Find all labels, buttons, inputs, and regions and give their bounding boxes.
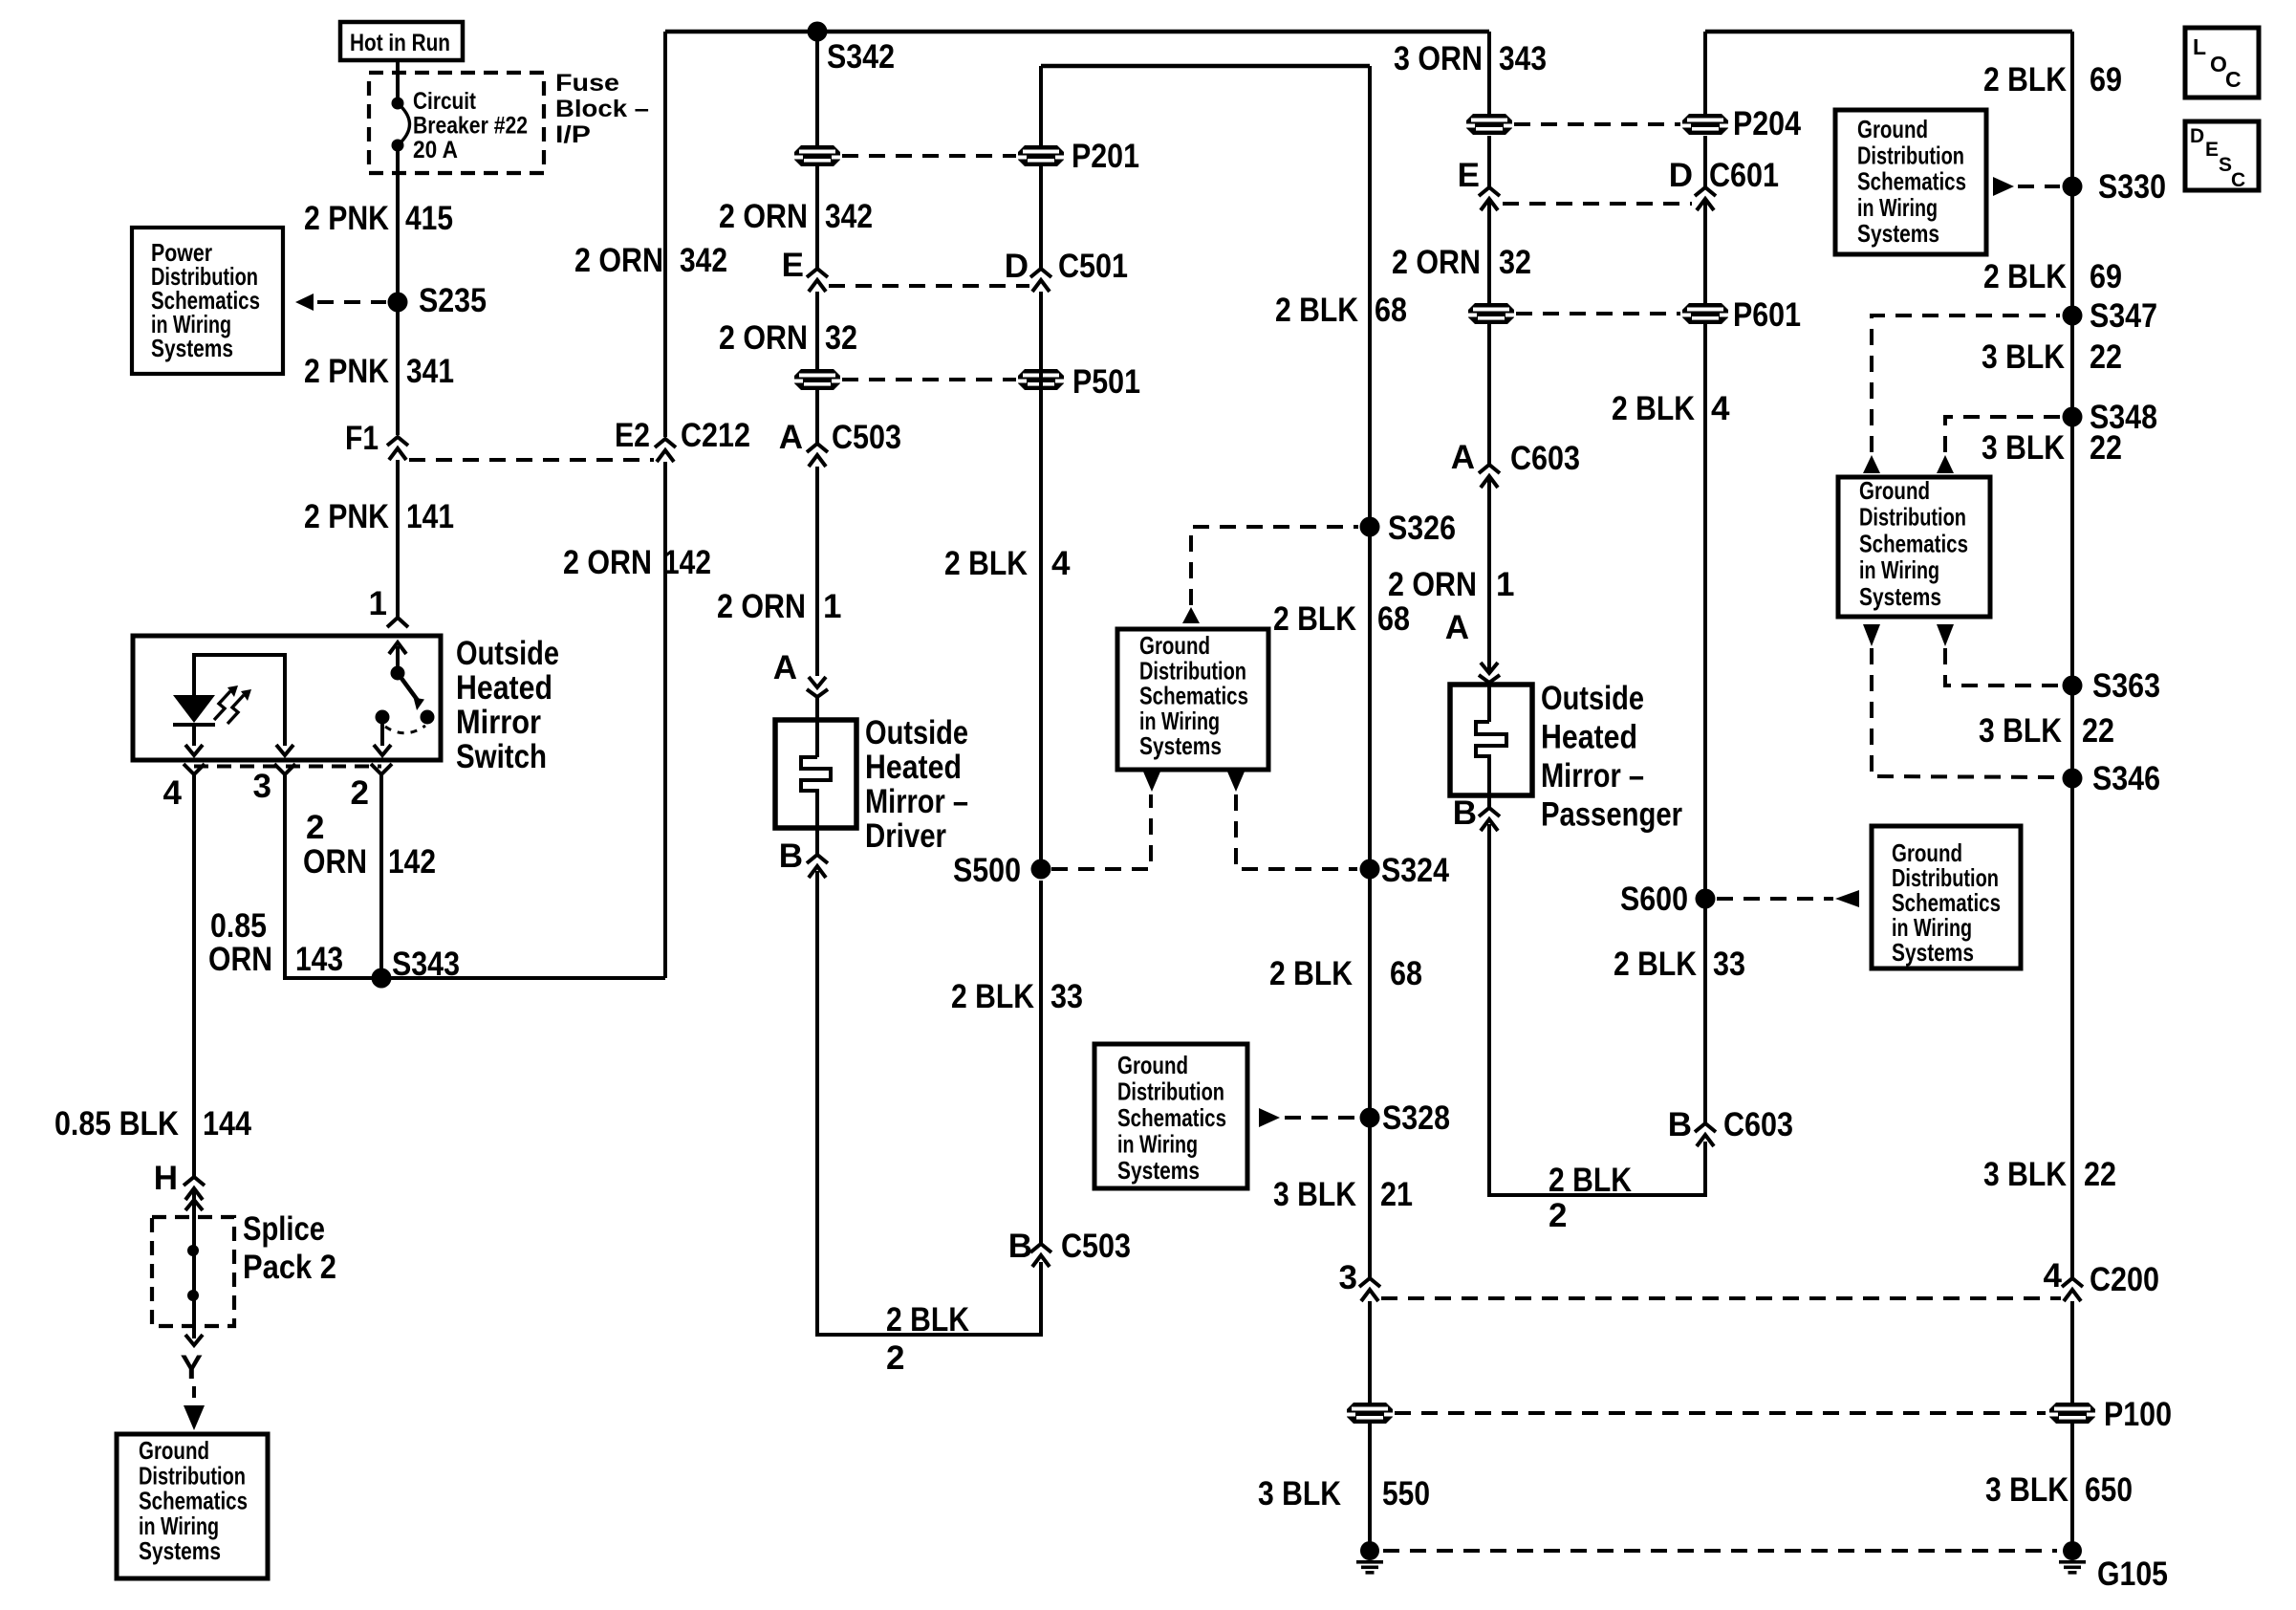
svg-text:D: D xyxy=(2190,125,2204,147)
arrow from ground box A xyxy=(1993,177,2014,196)
grommet P201 left xyxy=(794,145,840,166)
svg-text:2 BLK: 2 BLK xyxy=(1612,390,1695,427)
svg-text:I/P: I/P xyxy=(555,121,591,148)
svg-text:Passenger: Passenger xyxy=(1541,796,1682,834)
ground distribution box 5 xyxy=(117,1434,268,1578)
svg-text:H: H xyxy=(154,1160,178,1197)
svg-text:341: 341 xyxy=(406,353,454,390)
LED circuit top bar xyxy=(194,655,285,746)
svg-text:4: 4 xyxy=(1711,390,1730,427)
connector C200 pin 3 xyxy=(1339,1259,1380,1301)
splice S326 xyxy=(1360,510,1457,547)
svg-text:F1: F1 xyxy=(345,420,379,457)
svg-text:Heated: Heated xyxy=(865,749,962,786)
connector C503 pin A xyxy=(779,419,901,467)
wire pin 2 to S343 xyxy=(379,782,383,978)
svg-text:2 ORN: 2 ORN xyxy=(1392,244,1481,281)
wire label 2 PNK 341 xyxy=(304,353,454,390)
svg-text:32: 32 xyxy=(1499,244,1531,281)
ground G105 left xyxy=(1356,1541,1383,1575)
svg-text:Schematics: Schematics xyxy=(1859,529,1968,557)
svg-text:C: C xyxy=(2225,67,2242,92)
switch pin 1 arrow inside xyxy=(389,642,406,669)
connector pin 1 chevron xyxy=(387,618,408,627)
connector C601 pin D xyxy=(1669,157,1779,210)
svg-text:1: 1 xyxy=(1496,566,1514,603)
wire segment to S600 xyxy=(1703,200,1707,899)
svg-text:S342: S342 xyxy=(827,38,895,76)
splice S347 xyxy=(2063,297,2158,335)
svg-text:S: S xyxy=(2219,154,2232,176)
svg-text:550: 550 xyxy=(1382,1475,1430,1512)
splice pack dots xyxy=(187,1245,199,1301)
svg-text:B: B xyxy=(1008,1228,1032,1265)
connector pin H xyxy=(154,1160,205,1200)
wire 2 BLK 33 segment xyxy=(1039,881,1043,1244)
wire 2 BLK 2 passenger loop xyxy=(1489,824,1705,1195)
svg-text:33: 33 xyxy=(1051,978,1083,1015)
arrow to ground box 3 xyxy=(1835,890,1859,907)
wire label 2 ORN 342 (left) xyxy=(574,242,727,279)
svg-text:G105: G105 xyxy=(2097,1556,2168,1593)
svg-text:Systems: Systems xyxy=(1857,219,1939,248)
splice S330 xyxy=(2063,168,2167,206)
dashed reference line S235 xyxy=(317,300,386,304)
arrow to power distribution box xyxy=(295,294,314,311)
passenger mirror label xyxy=(1541,680,1682,834)
svg-text:2: 2 xyxy=(351,774,369,812)
svg-text:68: 68 xyxy=(1390,955,1422,992)
grommet P201 right xyxy=(1018,145,1064,166)
splice S348 xyxy=(2063,399,2158,436)
svg-text:Heated: Heated xyxy=(1541,719,1637,756)
svg-text:A: A xyxy=(779,419,803,456)
svg-text:650: 650 xyxy=(2085,1471,2133,1509)
dashed reference S324 xyxy=(1236,794,1357,869)
svg-text:C200: C200 xyxy=(2090,1261,2159,1298)
svg-text:Systems: Systems xyxy=(1892,938,1974,967)
arrow below ground box 2 right xyxy=(1937,624,1954,646)
svg-text:4: 4 xyxy=(163,774,183,812)
wire 2 BLK 2 driver loop xyxy=(817,871,1041,1335)
wire segment to C501 E xyxy=(815,166,819,268)
svg-text:S328: S328 xyxy=(1382,1099,1450,1137)
svg-text:C603: C603 xyxy=(1723,1106,1793,1143)
svg-text:0.85 BLK: 0.85 BLK xyxy=(54,1105,179,1142)
label pin 2 xyxy=(351,774,369,812)
svg-text:22: 22 xyxy=(2090,338,2122,376)
svg-text:1: 1 xyxy=(823,588,841,625)
dashed reference S326 xyxy=(1191,527,1358,605)
splice pack 2 dashed box xyxy=(152,1217,234,1326)
svg-text:S235: S235 xyxy=(419,282,487,319)
wire 2 BLK 68 segment xyxy=(1368,66,1372,1277)
ground distribution box 1 xyxy=(1117,629,1268,770)
connector dashed line under switch xyxy=(194,765,381,769)
label pin 1 xyxy=(369,585,387,622)
svg-text:Schematics: Schematics xyxy=(1857,167,1966,196)
LED light arrows xyxy=(214,685,251,724)
svg-text:ORN: ORN xyxy=(303,843,367,881)
svg-text:2 ORN: 2 ORN xyxy=(563,544,652,581)
svg-text:E: E xyxy=(1458,157,1480,194)
svg-text:C501: C501 xyxy=(1058,248,1128,285)
heater element driver xyxy=(801,757,831,855)
LOC legend box xyxy=(2185,28,2259,98)
wire segment to C601 E xyxy=(1487,136,1491,187)
splice S500 xyxy=(953,852,1051,889)
switch pole wire xyxy=(374,724,391,755)
label 0.85 BLK 144 xyxy=(54,1105,251,1142)
arrow into ground box 5 xyxy=(184,1405,205,1430)
wire label 2 PNK 415 xyxy=(304,200,453,237)
svg-text:Systems: Systems xyxy=(139,1536,221,1565)
switch pin 3 chevron xyxy=(274,764,295,784)
wire to ground G105 right xyxy=(2070,1424,2074,1543)
svg-text:Driver: Driver xyxy=(865,817,946,855)
LED indicator xyxy=(173,695,215,725)
dashed connector line C501 xyxy=(829,284,1029,288)
driver mirror pin A xyxy=(773,649,828,697)
grommet P601 left xyxy=(1468,303,1514,324)
wire 2 ORN 142 lower segment xyxy=(663,462,667,978)
splice S328 xyxy=(1360,1099,1451,1137)
svg-text:342: 342 xyxy=(680,242,727,279)
svg-text:E: E xyxy=(782,247,804,284)
switch pivot dot xyxy=(391,666,405,681)
splice S235 xyxy=(388,282,487,319)
grommet P601 right xyxy=(1682,303,1728,324)
wire label 2 BLK 2 passenger xyxy=(1549,1162,1632,1234)
svg-text:Systems: Systems xyxy=(1117,1156,1200,1185)
svg-text:Y: Y xyxy=(181,1349,203,1386)
svg-text:3 BLK: 3 BLK xyxy=(1979,712,2062,750)
wire 2 ORN 1 segment xyxy=(815,467,819,676)
svg-text:142: 142 xyxy=(388,843,436,881)
wire label 3 BLK 650 xyxy=(1985,1471,2133,1509)
dashed line P501 xyxy=(842,378,1016,381)
wire label 2 BLK 4 passenger xyxy=(1612,390,1730,427)
wire into driver mirror xyxy=(815,698,819,757)
svg-text:P501: P501 xyxy=(1072,363,1140,401)
svg-text:Systems: Systems xyxy=(1139,731,1222,760)
svg-text:2 ORN: 2 ORN xyxy=(574,242,663,279)
circuit breaker #22 symbol xyxy=(392,98,410,152)
svg-text:B: B xyxy=(779,838,803,875)
svg-text:22: 22 xyxy=(2090,429,2122,467)
splice S324 xyxy=(1360,852,1450,889)
svg-text:in Wiring: in Wiring xyxy=(1859,555,1939,584)
svg-text:L: L xyxy=(2193,34,2206,59)
wire bus to P204 (passenger feed) xyxy=(1705,30,2072,33)
svg-text:143: 143 xyxy=(295,941,343,978)
splice pack exit arrow xyxy=(185,1335,203,1345)
switch contact dot right xyxy=(421,710,435,725)
ground distribution box 4 xyxy=(1094,1044,1247,1188)
svg-text:Schematics: Schematics xyxy=(1117,1103,1226,1132)
label P204 xyxy=(1733,105,1801,142)
svg-text:4: 4 xyxy=(2044,1257,2063,1295)
connector C603 pin A xyxy=(1451,439,1580,488)
arrow into ground box 1 right xyxy=(1227,772,1245,792)
dashed wire to ground box 5 xyxy=(192,1386,196,1403)
label Y xyxy=(181,1349,203,1386)
svg-text:Outside: Outside xyxy=(456,635,559,672)
svg-text:2 BLK: 2 BLK xyxy=(886,1301,969,1338)
wire label 3 BLK 21 xyxy=(1273,1176,1413,1213)
label pin 3 xyxy=(253,768,271,805)
svg-text:E2: E2 xyxy=(615,417,650,454)
label P501 xyxy=(1072,363,1140,401)
svg-text:2: 2 xyxy=(886,1339,904,1377)
svg-text:C503: C503 xyxy=(1061,1228,1131,1265)
svg-text:P204: P204 xyxy=(1733,105,1801,142)
svg-text:2 ORN: 2 ORN xyxy=(1388,566,1477,603)
svg-text:3 BLK: 3 BLK xyxy=(1258,1475,1341,1512)
connector C501 pin D xyxy=(1005,248,1128,292)
arrow above ground box 2 right xyxy=(1937,455,1954,473)
svg-text:2 BLK: 2 BLK xyxy=(1983,258,2067,295)
label P201 xyxy=(1072,138,1139,175)
svg-text:Ground: Ground xyxy=(1859,476,1930,505)
svg-text:Breaker #22: Breaker #22 xyxy=(413,113,528,140)
power distribution reference box xyxy=(132,228,283,374)
wire into passenger mirror xyxy=(1487,683,1491,722)
svg-text:C: C xyxy=(2231,169,2245,191)
svg-text:2 PNK: 2 PNK xyxy=(304,200,389,237)
wire bus 3 ORN 343 corner xyxy=(1041,64,1370,68)
passenger mirror pin A xyxy=(1445,609,1500,683)
wire 2 BLK 4 passenger segment xyxy=(1703,32,1707,187)
svg-text:C212: C212 xyxy=(681,417,750,454)
arrow into ground box 1 left xyxy=(1143,772,1160,792)
svg-text:Systems: Systems xyxy=(151,334,233,362)
svg-text:2 BLK: 2 BLK xyxy=(1549,1162,1632,1199)
svg-text:P201: P201 xyxy=(1072,138,1139,175)
switch lever xyxy=(398,673,424,710)
svg-text:3 BLK: 3 BLK xyxy=(1273,1176,1356,1213)
svg-text:2 BLK: 2 BLK xyxy=(1273,600,1356,638)
splice S600 xyxy=(1620,881,1716,918)
wire label 3 ORN 343 xyxy=(1394,40,1547,77)
label 0.85 ORN 143 xyxy=(208,907,343,978)
svg-text:Distribution: Distribution xyxy=(1857,141,1964,169)
svg-text:Mirror –: Mirror – xyxy=(865,783,968,820)
LED resistor branch arrow xyxy=(276,745,293,755)
svg-text:C603: C603 xyxy=(1510,440,1580,477)
svg-text:B: B xyxy=(1453,794,1477,832)
wire label 3 BLK 22 (1) xyxy=(1982,338,2122,376)
wire to ground G105 left xyxy=(1368,1424,1372,1543)
wire label 2 PNK 141 xyxy=(304,498,454,535)
svg-text:Distribution: Distribution xyxy=(1117,1077,1224,1106)
circuit breaker CB22 dashed box (Fuse Block) xyxy=(369,73,544,173)
svg-text:A: A xyxy=(773,649,797,686)
connector C601 pin E xyxy=(1458,157,1500,210)
outside heated mirror switch box xyxy=(133,636,441,760)
switch pin 4 chevron xyxy=(184,764,205,784)
wire label 2 BLK 33 passenger xyxy=(1614,946,1745,983)
wire 3 BLK 650 segment xyxy=(2070,1301,2074,1403)
ground distribution box 3 xyxy=(1872,826,2021,968)
svg-text:A: A xyxy=(1445,609,1469,646)
svg-text:2 BLK: 2 BLK xyxy=(1983,61,2067,98)
svg-text:2 BLK: 2 BLK xyxy=(1269,955,1353,992)
svg-text:342: 342 xyxy=(825,198,873,235)
splice pack 2 wire xyxy=(185,1188,203,1338)
svg-text:2 BLK: 2 BLK xyxy=(1614,946,1697,983)
label P601 xyxy=(1733,296,1801,334)
svg-text:3 BLK: 3 BLK xyxy=(1982,338,2065,376)
svg-text:69: 69 xyxy=(2090,61,2122,98)
splice S342 xyxy=(808,22,896,76)
dashed reference S363 xyxy=(1945,648,2060,685)
connector C212 pin E2 xyxy=(615,417,750,462)
svg-text:Mirror: Mirror xyxy=(456,704,541,741)
wire segment to C603 B xyxy=(1703,908,1707,1123)
wire label 3 BLK 550 xyxy=(1258,1475,1430,1512)
wire bus from S342 (hot feed) xyxy=(665,30,1489,33)
wire label 3 BLK 22 (4) xyxy=(1983,1156,2116,1193)
label 2 ORN 142 pin2 xyxy=(303,809,436,881)
svg-text:2 BLK: 2 BLK xyxy=(944,545,1028,582)
connector C212 pin F1 xyxy=(345,420,408,460)
wire label 2 BLK 2 driver xyxy=(886,1301,969,1377)
svg-text:3 ORN: 3 ORN xyxy=(1394,40,1483,77)
wire label 2 BLK 69 (1) xyxy=(1983,61,2122,98)
connector C503 pin B xyxy=(1008,1228,1131,1267)
svg-text:2 ORN: 2 ORN xyxy=(719,198,808,235)
wire label 2 BLK 69 (2) xyxy=(1983,258,2122,295)
svg-text:ORN: ORN xyxy=(208,941,272,978)
svg-text:Switch: Switch xyxy=(456,738,547,775)
connector C200 pin 4 xyxy=(2044,1257,2159,1301)
svg-text:2: 2 xyxy=(1549,1197,1567,1234)
svg-text:22: 22 xyxy=(2084,1156,2116,1193)
arrow above ground box 1 xyxy=(1182,607,1200,623)
dashed reference S347 xyxy=(1872,315,2060,452)
svg-text:2 ORN: 2 ORN xyxy=(717,588,806,625)
dashed line P201 xyxy=(842,154,1016,158)
svg-text:Systems: Systems xyxy=(1859,582,1941,611)
svg-text:33: 33 xyxy=(1713,946,1745,983)
svg-text:69: 69 xyxy=(2090,258,2122,295)
svg-text:Mirror –: Mirror – xyxy=(1541,757,1644,794)
svg-text:Fuse: Fuse xyxy=(555,70,619,97)
svg-text:C601: C601 xyxy=(1709,157,1779,194)
svg-text:S363: S363 xyxy=(2092,667,2160,705)
wire label 3 BLK 22 (3) xyxy=(1979,712,2114,750)
wire label 2 ORN 142 (left) xyxy=(563,544,711,581)
wire 2 ORN 342 segment xyxy=(815,32,819,145)
wire label 2 BLK 68 (1) xyxy=(1275,292,1407,329)
arrow below ground box 2 left xyxy=(1863,624,1880,646)
dashed connector line C601 xyxy=(1503,202,1692,206)
svg-text:68: 68 xyxy=(1377,600,1410,638)
svg-text:in Wiring: in Wiring xyxy=(1857,193,1938,222)
svg-text:S343: S343 xyxy=(392,946,460,983)
switch pin 1 wire xyxy=(396,466,400,617)
wire label 2 ORN 32 passenger xyxy=(1392,244,1531,281)
svg-text:2: 2 xyxy=(306,809,324,846)
grommet P501 right xyxy=(1018,369,1064,390)
svg-text:0.85: 0.85 xyxy=(210,907,267,945)
ground G105 right xyxy=(2059,1541,2086,1575)
wire 2 ORN 142 vertical xyxy=(663,32,667,437)
svg-text:S500: S500 xyxy=(953,852,1021,889)
DESC legend box xyxy=(2185,121,2259,191)
circuit breaker #22 label xyxy=(413,88,528,163)
dashed reference S330 xyxy=(2018,185,2060,188)
svg-text:Ground: Ground xyxy=(1857,115,1928,143)
label splice pack 2 xyxy=(243,1210,336,1286)
wire label 2 BLK 68 (2) xyxy=(1273,600,1410,638)
svg-text:4: 4 xyxy=(1051,545,1071,582)
svg-text:2 PNK: 2 PNK xyxy=(304,353,389,390)
svg-text:P100: P100 xyxy=(2104,1396,2172,1433)
svg-text:in Wiring: in Wiring xyxy=(1117,1130,1198,1159)
wire label 2 BLK 68 (3) xyxy=(1269,955,1422,992)
svg-text:3: 3 xyxy=(253,768,271,805)
svg-text:Pack 2: Pack 2 xyxy=(243,1249,336,1286)
svg-text:Block –: Block – xyxy=(555,96,649,122)
wire from Hot in Run to circuit breaker xyxy=(396,60,400,99)
arrow above ground box 2 left xyxy=(1863,455,1880,473)
wire label 2 ORN 1 passenger xyxy=(1388,566,1514,603)
fuse block label xyxy=(555,70,649,148)
svg-text:D: D xyxy=(1005,248,1029,285)
grommet P501 left xyxy=(794,369,840,390)
svg-text:S600: S600 xyxy=(1620,881,1688,918)
power label box: Hot in Run xyxy=(340,22,463,60)
svg-text:415: 415 xyxy=(405,200,453,237)
dashed connector line C200 xyxy=(1381,1296,2061,1300)
passenger mirror pin B xyxy=(1453,794,1500,832)
grommet P100 right xyxy=(2049,1403,2095,1424)
svg-text:S346: S346 xyxy=(2092,760,2160,797)
wire 2 BLK segment to S500 xyxy=(1039,292,1043,869)
splice S346 xyxy=(2063,760,2161,797)
switch label xyxy=(456,635,559,775)
svg-text:P601: P601 xyxy=(1733,296,1801,334)
switch contact dot left xyxy=(376,710,390,725)
grommet P204 right xyxy=(1682,114,1728,135)
svg-text:141: 141 xyxy=(406,498,454,535)
svg-text:144: 144 xyxy=(203,1105,251,1142)
dashed line P204 xyxy=(1514,122,1680,126)
dashed reference S500 xyxy=(1051,794,1151,869)
dashed line G105 xyxy=(1383,1549,2057,1553)
svg-text:A: A xyxy=(1451,439,1475,476)
ground distribution box A xyxy=(1835,110,1986,254)
svg-text:C503: C503 xyxy=(832,419,901,456)
wire 2 ORN 32 segment xyxy=(815,292,819,369)
dashed line P100 xyxy=(1395,1411,2046,1415)
svg-text:2 ORN: 2 ORN xyxy=(719,319,808,357)
svg-text:1: 1 xyxy=(369,585,387,622)
wire label 2 ORN 32 xyxy=(719,319,857,357)
wire 2 PNK 415 segment xyxy=(396,145,400,435)
svg-text:3 BLK: 3 BLK xyxy=(1983,1156,2067,1193)
wire segment to C503 A xyxy=(815,390,819,443)
svg-text:2 BLK: 2 BLK xyxy=(1275,292,1358,329)
wire 3 ORN 343 segment xyxy=(1487,32,1491,114)
wire pin 4 down xyxy=(192,782,196,1177)
svg-text:20 A: 20 A xyxy=(413,137,458,163)
wire pin 3 to S343 corner xyxy=(285,782,665,978)
wire segment to P601 xyxy=(1487,200,1491,303)
splice S343 xyxy=(372,946,461,989)
